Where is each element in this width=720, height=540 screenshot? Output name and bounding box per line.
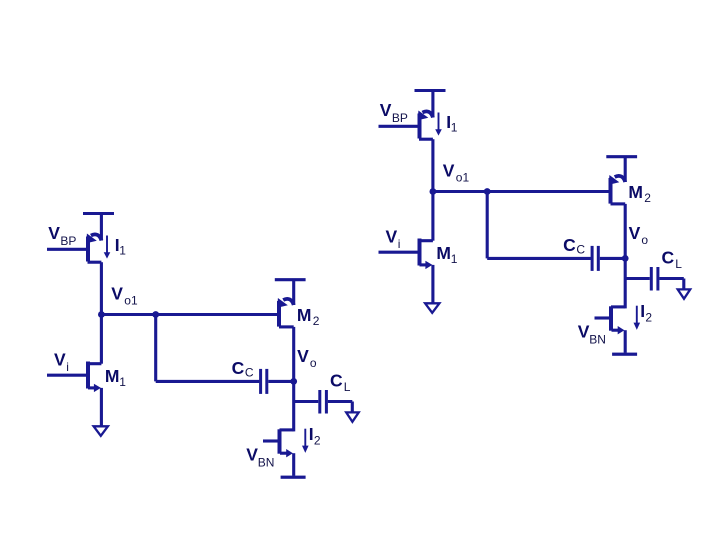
svg-text:V: V [54,350,66,370]
svg-text:1: 1 [451,252,458,266]
svg-text:BN: BN [258,455,275,469]
svg-text:L: L [675,257,682,271]
transistor I1 channel bar (right) [418,114,422,139]
current arrow I2 (right) [636,306,638,324]
wire V_o1 to M2 gate (left) [101,313,277,316]
svg-text:V: V [246,445,258,465]
wire V_i gate (left) [47,374,86,377]
svg-text:V: V [111,284,123,304]
ground (C_L) (right) [678,289,691,298]
wire to C_L (left) [294,400,319,403]
svg-text:I: I [640,301,645,321]
wire C_C to V_o (right) [600,257,625,260]
svg-text:i: i [66,360,69,374]
ground (M1 source) (left) [94,426,108,436]
transistor M2 channel bar (left) [277,301,281,327]
svg-text:2: 2 [313,314,320,328]
svg-text:2: 2 [644,191,651,205]
wire to C_C (left) [156,380,260,383]
svg-text:C: C [576,243,585,257]
ground (C_L) (left) [346,412,359,421]
wire V_o down (left) [292,381,295,431]
svg-text:C: C [563,235,576,255]
transistor I2 channel bar (right) [609,306,613,330]
wire VDD to I1 (right) [431,89,434,118]
wire VDD to M2 (right) [624,156,627,183]
VDD rail (M2 source) (left) [275,278,306,281]
svg-text:i: i [398,237,401,251]
transistor I1 drain (left) [88,261,102,264]
wire V_BP gate (left) [47,248,86,251]
wire junction down (right) [486,192,489,259]
transistor I2 drain (left) [280,428,294,431]
svg-text:C: C [245,366,254,380]
VDD rail (M2 source) (right) [606,155,637,158]
svg-text:2: 2 [645,310,652,324]
svg-text:2: 2 [314,433,321,447]
transistor I2 source arrow (left) [280,452,287,455]
svg-text:C: C [232,358,245,378]
transistor M1 source arrow (left) [88,386,95,389]
transistor M2 drain (right) [611,202,626,205]
wire V_BN gate (left) [263,439,278,442]
node V_o (right) [622,255,629,262]
transistor M2 channel bar (right) [609,178,613,204]
ground bar (I2 source) (right) [612,353,637,356]
VDD rail (I1 source) (left) [83,212,114,215]
svg-text:1: 1 [451,121,458,135]
ground bar (I2 source) (left) [281,476,306,479]
transistor M2 drain (left) [279,325,294,328]
capacitor C_L plates (left) [318,390,321,414]
transistor M2 source arrow (right) [615,176,626,182]
svg-text:V: V [386,227,398,247]
wire V_BN gate (right) [595,316,610,319]
svg-text:1: 1 [119,244,126,258]
wire VDD to I1 (left) [100,212,103,241]
transistor M1 source arrow (right) [420,263,427,266]
transistor M1 channel bar (left) [86,362,90,389]
transistor I1 drain (right) [419,138,433,141]
svg-text:M: M [105,366,120,386]
transistor M1 drain (right) [420,239,433,242]
svg-text:V: V [297,346,309,366]
wire V_o1 to M2 gate (right) [433,190,609,193]
wire C_L to ground (left) [328,400,352,403]
transistor I1 source arrow (left) [91,234,102,240]
node V_o (left) [290,378,297,385]
svg-text:V: V [380,100,392,120]
svg-text:C: C [330,370,343,390]
transistor I1 source arrow (right) [422,111,433,117]
transistor I2 drain (right) [611,305,625,308]
capacitor C_C plates (right) [591,246,594,271]
svg-text:M: M [297,305,312,325]
capacitor C_C plates (left) [259,369,262,394]
svg-text:V: V [443,161,455,181]
wire V_i gate (right) [379,251,418,254]
wire junction down (left) [154,315,157,382]
transistor I1 channel bar (left) [86,237,90,262]
svg-text:1: 1 [119,375,126,389]
wire V_o down (right) [624,258,627,308]
node V_o1 (left) [98,311,105,318]
capacitor C_L plates (right) [650,267,653,291]
transistor M1 drain (left) [88,362,101,365]
transistor I2 source arrow (right) [612,329,619,332]
svg-text:M: M [628,182,643,202]
node junction (right) [484,188,491,195]
wire C_L to ground (right) [659,277,683,280]
transistor I2 channel bar (left) [278,429,282,453]
svg-text:I: I [309,424,314,444]
svg-text:o1: o1 [456,171,470,185]
svg-text:V: V [48,223,60,243]
wire to C_C (right) [487,257,591,260]
svg-text:V: V [629,223,641,243]
svg-text:BN: BN [589,332,606,346]
wire V_BP gate (right) [379,125,418,128]
svg-text:BP: BP [392,111,408,125]
transistor M2 source arrow (left) [283,299,294,305]
svg-text:o: o [641,233,648,247]
svg-text:V: V [578,322,590,342]
svg-text:L: L [344,380,351,394]
wire VDD to M2 (left) [292,279,295,306]
svg-text:o: o [310,356,317,370]
svg-text:M: M [436,243,451,263]
node junction (left) [152,311,159,318]
transistor M1 channel bar (right) [418,239,422,266]
svg-text:o1: o1 [124,294,138,308]
ground (M1 source) (right) [425,303,439,313]
current arrow I2 (left) [304,429,306,447]
current arrow I1 (right) [438,113,440,131]
node V_o1 (right) [430,188,437,195]
svg-text:C: C [662,247,675,267]
wire to C_L (right) [625,277,650,280]
svg-text:BP: BP [60,234,76,248]
current arrow I1 (left) [106,236,108,254]
VDD rail (I1 source) (right) [415,89,446,92]
wire C_C to V_o (left) [268,380,293,383]
